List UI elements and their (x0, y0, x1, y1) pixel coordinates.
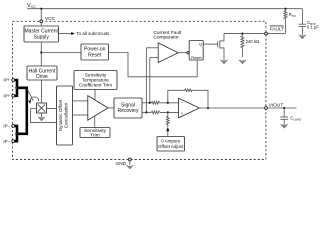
amplifier A1 (88, 96, 108, 121)
ground symbol at 240k (239, 60, 246, 64)
svg-text:Recovery: Recovery (117, 108, 139, 114)
svg-text:Reset: Reset (191, 55, 202, 60)
ground symbol at hall element (38, 117, 45, 121)
primary conductor thick path IP+ side (15, 80, 17, 88)
pin IP- (2) (3, 139, 14, 144)
wire signal recovery lower output (142, 111, 152, 113)
svg-text:GND: GND (116, 161, 127, 167)
junction on VCC rail above RPU (284, 8, 286, 10)
wire comparator upper sense (145, 48, 147, 113)
svg-text:Offset Adjust: Offset Adjust (158, 144, 184, 149)
block Dynamic Offset Cancellation (57, 86, 73, 145)
IC boundary (dashed package outline) (13, 21, 266, 159)
ground symbol at GND pin (126, 165, 133, 169)
comparator label (153, 30, 182, 41)
wire STC trim to amplifier (94, 90, 96, 101)
pin IP- (1) (3, 124, 14, 129)
pin IP+ (2) (3, 94, 14, 99)
junction op-amp non-inverting node (167, 111, 169, 113)
pin GND (116, 158, 132, 167)
junction IP+ bus (15, 86, 18, 89)
net VCC rail (27, 3, 302, 9)
resistor offset adjust (166, 112, 169, 136)
transistor Q1 open-drain (218, 34, 224, 60)
svg-text:Reset: Reset (88, 52, 102, 58)
pin FAULT (active low) (265, 26, 285, 35)
wire comparator output (178, 52, 187, 54)
block Master Current Supply (24, 26, 59, 42)
primary conductor thick path IP- side (15, 126, 17, 134)
wire latch Q to transistor gate (203, 43, 218, 45)
wire DOC to amplifier (lower) (72, 114, 88, 116)
junction CLOAD (283, 107, 285, 109)
capacitor CBYP 0.1uF (299, 9, 320, 35)
wire DOC to amplifier (upper) (72, 100, 88, 102)
svg-text:Drive: Drive (36, 74, 48, 80)
svg-text:VCC: VCC (45, 16, 56, 22)
wire power-on reset to latch reset input (109, 53, 198, 77)
comparator U2 (158, 43, 178, 63)
wire master current supply down to hall current drive (40, 42, 42, 66)
feedback resistor loop (168, 89, 208, 108)
svg-text:FAULT: FAULT (270, 27, 284, 32)
svg-text:240 kΩ: 240 kΩ (246, 39, 260, 44)
block Power-on Reset (81, 44, 109, 60)
wire hall element left output to DOC (31, 109, 57, 123)
ground symbol at CBYP (299, 35, 306, 39)
resistor lower input (152, 111, 160, 114)
svg-text:Cancellation: Cancellation (64, 102, 69, 128)
ground symbol at transistor source (220, 60, 227, 64)
wire VCC rail to VCC pin (40, 9, 42, 20)
junction op-amp inverting node (167, 102, 169, 104)
svg-text:0.1 µF: 0.1 µF (307, 25, 319, 30)
wire comparator upper input (146, 47, 158, 49)
pin VCC (40, 16, 56, 23)
wire hall element right output to DOC (47, 108, 57, 110)
svg-text:Coefficient Trim: Coefficient Trim (79, 82, 112, 88)
junction FAULT / 240k (241, 33, 243, 35)
inverter bubble on latch input (187, 52, 189, 54)
wire op-amp output to VIOUT pin (199, 107, 264, 109)
pin IP+ (1) (3, 78, 14, 83)
block 0 Ampere Offset Adjust (157, 137, 184, 152)
wire GND pin to ground (129, 161, 131, 165)
svg-text:−: − (181, 101, 184, 106)
wire amplifier to sensitivity trim (94, 116, 96, 128)
svg-text:Q: Q (199, 42, 202, 47)
resistor upper input (152, 101, 160, 104)
svg-text:Supply: Supply (34, 34, 50, 40)
svg-text:0 Ampere: 0 Ampere (161, 139, 181, 144)
junction on VCC rail above VCC pin (40, 8, 42, 10)
junction upper wire tap (149, 102, 151, 104)
hall element X (37, 103, 47, 113)
field coupling arrow (27, 90, 38, 104)
svg-text:IP−: IP− (3, 124, 10, 129)
svg-text:Dynamic Offset: Dynamic Offset (58, 99, 63, 131)
op-amp U4 (179, 98, 200, 118)
wire to op-amp inverting input (160, 102, 179, 104)
junction POR tap (40, 51, 42, 53)
block Sensitivity Temperature Coefficient Trim (74, 71, 117, 90)
resistor RPU (284, 9, 296, 34)
block Sensitivity Trim (80, 128, 110, 139)
resistor 240 kOhm (241, 34, 260, 57)
wire comparator lower sense (149, 58, 151, 103)
capacitor CLOAD (280, 108, 301, 125)
pin VIOUT (265, 103, 284, 110)
wire amplifier to signal recovery (108, 107, 114, 109)
wire hall drive to hall element (41, 80, 43, 103)
svg-text:IP+: IP+ (3, 78, 10, 83)
svg-text:IP−: IP− (3, 139, 10, 144)
junction lower wire tap (145, 111, 147, 113)
latch U3 with reset (189, 41, 203, 61)
wire to op-amp non-inverting input (160, 111, 179, 113)
ground symbol at CLOAD (281, 124, 288, 128)
wire signal recovery upper output (142, 102, 152, 104)
svg-text:IP+: IP+ (3, 94, 10, 99)
wire FAULT pin to RPU (267, 33, 285, 35)
wire VIOUT external (267, 107, 296, 109)
svg-text:Trim: Trim (90, 133, 100, 139)
net FAULT internal wire (224, 33, 265, 35)
svg-text:+: + (181, 111, 184, 116)
primary conductor U loop (17, 88, 27, 134)
junction op-amp output node (207, 107, 209, 109)
arrow to all subcircuits (59, 31, 111, 36)
block Signal Recovery (114, 98, 142, 118)
wire to power-on reset (41, 52, 81, 54)
block Hall Current Drive (27, 66, 57, 80)
wire VCC pin to master current supply (40, 23, 42, 26)
wire comparator lower input (150, 57, 158, 59)
wire hall element to ground (41, 113, 43, 117)
svg-text:Comparator: Comparator (153, 35, 179, 41)
svg-text:To all subcircuits: To all subcircuits (76, 31, 110, 36)
junction IP- bus (15, 132, 18, 135)
